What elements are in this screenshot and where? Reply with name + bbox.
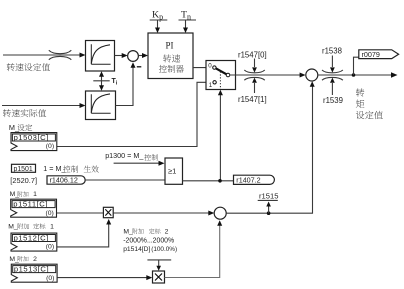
wire setpoint to summing node: [115, 53, 128, 58]
label r1539: [323, 96, 343, 105]
connector r0079: [359, 50, 399, 59]
wire torque setpoint p1503 to switch: [57, 82, 213, 146]
wire p1300 condition to OR gate: [114, 161, 165, 166]
label Tn with arrow: [179, 10, 197, 34]
limiter r1538/r1539 symbol: [322, 56, 343, 96]
wire torque setpoint output: [318, 72, 398, 78]
wire r1406.12 to OR gate: [85, 179, 165, 181]
connector p1503[C]: [11, 133, 57, 151]
svg-text:1: 1: [209, 82, 213, 89]
label M_add scaling 1: [8, 223, 54, 230]
label M_add 2: [9, 256, 37, 263]
wire actual speed to summing node: [116, 62, 136, 105]
svg-text:2: 2: [165, 228, 169, 235]
svg-text:(0): (0): [46, 244, 54, 251]
wire p1512 to multiplier1: [57, 219, 111, 247]
wire speed setpoint input: [3, 53, 86, 58]
svg-text:p1513[C]: p1513[C]: [14, 265, 49, 274]
label Kp with arrow: [150, 10, 168, 34]
svg-text:r1539: r1539: [323, 96, 343, 105]
svg-text:PI: PI: [166, 41, 174, 51]
svg-text:r0079: r0079: [362, 50, 380, 59]
binector r1406.12: [47, 176, 85, 185]
svg-text:0: 0: [208, 62, 212, 69]
svg-text:p1501: p1501: [14, 166, 33, 173]
multiplier M1: [103, 207, 113, 217]
connector p1512[C]: [11, 233, 57, 251]
svg-text:p1511[C]: p1511[C]: [13, 200, 48, 209]
svg-text:r1406.12: r1406.12: [50, 176, 78, 185]
label p1300 = M_control: [105, 151, 158, 161]
svg-text:p1512[C]: p1512[C]: [14, 234, 49, 243]
svg-text:≥1: ≥1: [168, 167, 176, 176]
wire OR output to r1407: [183, 179, 234, 183]
limiter r1547 symbol: [244, 59, 264, 94]
svg-text:[2520.7]: [2520.7]: [10, 176, 37, 185]
wire p1511 to multiplier: [57, 212, 104, 214]
svg-text:p1300 = M_: p1300 = M_: [105, 151, 144, 160]
label torque setpoint (Chinese): [356, 88, 383, 119]
label [2520.7]: [10, 176, 37, 185]
svg-text:(0): (0): [46, 143, 54, 150]
svg-text:M_: M_: [123, 228, 133, 235]
svg-text:1: 1: [50, 224, 54, 231]
summing node (torque offset): [306, 69, 318, 81]
svg-text:(0): (0): [46, 275, 54, 282]
label 1 = M_control active: [43, 164, 98, 173]
binector r1407.2: [234, 175, 275, 184]
connector p1511[C]: [11, 199, 57, 217]
multiplier M2: [153, 271, 165, 283]
svg-text:(0): (0): [46, 210, 54, 217]
svg-text:M_: M_: [10, 191, 20, 198]
selector switch block: [206, 61, 236, 90]
label speed setpoint (Chinese): [7, 63, 50, 71]
label Ti: [112, 78, 118, 86]
wire additive torque to upper node: [226, 81, 315, 213]
svg-text:r1547[1]: r1547[1]: [238, 95, 267, 104]
svg-text:r1547[0]: r1547[0]: [238, 50, 267, 59]
svg-text:M_: M_: [9, 123, 20, 132]
wire multiplier1 to summing node: [113, 211, 214, 216]
Ti adaptation double arrow: [93, 71, 109, 91]
switch control arrow: [218, 90, 223, 181]
svg-text:p1503[C]: p1503[C]: [14, 133, 49, 142]
summing node (speed error): [128, 51, 139, 62]
wire PI output to switch: [193, 67, 213, 69]
wire error to PI controller: [138, 53, 148, 58]
node to r0079: [352, 57, 359, 77]
svg-text:1: 1: [33, 191, 37, 198]
filter block T2 (actual speed smoothing): [86, 91, 116, 120]
label M_add scaling 2 block: [123, 228, 177, 253]
label actual speed (Chinese): [3, 109, 46, 117]
OR gate >=1: [165, 158, 183, 184]
svg-text:(100.0%): (100.0%): [151, 246, 177, 253]
label r1547[0]: [238, 50, 267, 59]
label r1547[1]: [238, 95, 267, 104]
PI speed controller block: [148, 33, 193, 79]
svg-text:p1514[D]: p1514[D]: [123, 246, 150, 253]
p1514 tap to multiplier2: [147, 260, 171, 271]
readout r1515: [258, 192, 279, 215]
connector p1513[C]: [11, 264, 57, 282]
svg-text:1 = M_: 1 = M_: [43, 164, 66, 173]
svg-text:2: 2: [33, 256, 37, 263]
wire multiplier2 to summing node: [165, 220, 223, 277]
label M_setpoint: [9, 123, 32, 132]
svg-text:r1515: r1515: [259, 192, 278, 201]
svg-text:-2000%...2000%: -2000%...2000%: [123, 237, 174, 244]
svg-text:M_: M_: [8, 224, 18, 231]
summing node (additive torques): [214, 207, 226, 219]
smoothing symbol on setpoint line: [49, 50, 72, 60]
wire actual speed input: [2, 103, 86, 108]
filter block T1 (setpoint smoothing): [86, 41, 115, 72]
svg-text:r1407.2: r1407.2: [236, 176, 260, 185]
label r1538: [322, 46, 342, 55]
parameter box p1501: [12, 164, 36, 173]
wire switch output: [230, 73, 306, 78]
wire p1513 to multiplier2: [57, 275, 152, 280]
svg-text:Ti: Ti: [112, 78, 118, 86]
svg-text:r1538: r1538: [322, 46, 342, 55]
minus sign at summing node: [137, 66, 142, 68]
label M_add 1: [10, 191, 37, 198]
